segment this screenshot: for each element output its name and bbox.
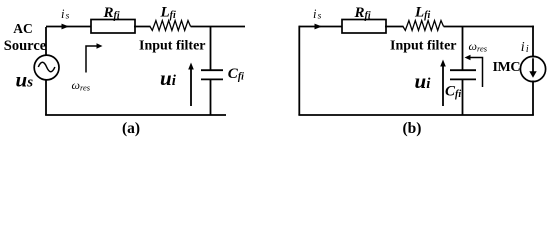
- current source IMC U1 (circle with down arrow): [520, 56, 545, 81]
- label: L_fi (a): [160, 5, 177, 21]
- label: Input filter (a): [139, 39, 206, 54]
- label: omega_res (a): [72, 78, 91, 93]
- label: i_s (a): [61, 7, 70, 22]
- AC source V1 (circle with sine): [34, 55, 59, 80]
- svg-text:Source: Source: [4, 38, 47, 54]
- label: C_fi (b): [445, 84, 461, 101]
- wire: (b) top rail: [299, 26, 534, 28]
- wire: (b) bottom rail: [298, 114, 534, 116]
- wire: (b) left vertical: [298, 26, 300, 115]
- label: R_fi (a): [103, 5, 120, 22]
- wire: (a) top rail: [46, 26, 245, 28]
- capacitor C_fi (a) plates: [201, 70, 223, 79]
- label: L_fi (b): [414, 5, 431, 21]
- resonance arrow omega_res (b): [465, 55, 483, 87]
- resistor R_fi (a): [91, 20, 135, 34]
- label: u_i (a): [160, 66, 177, 90]
- wire: (b) right vertical above IMC: [532, 26, 534, 58]
- voltage arrow u_i (b): [440, 60, 446, 107]
- wire: (b) between resistor and inductor: [385, 26, 404, 28]
- wire: (b) capacitor branch upper: [462, 27, 464, 71]
- label: IMC: [493, 60, 521, 75]
- svg-text:Input filter: Input filter: [139, 39, 206, 54]
- label: i_s (b): [313, 7, 322, 22]
- svg-text:(a): (a): [122, 120, 140, 137]
- wire: (b) capacitor branch lower: [462, 79, 464, 115]
- voltage arrow u_i (a): [188, 63, 194, 107]
- inductor L_fi (b) zigzag: [403, 21, 444, 31]
- svg-text:IMC: IMC: [493, 60, 521, 75]
- label: Input filter (b): [390, 39, 457, 54]
- label: AC Source: [4, 21, 47, 54]
- wire: (b) right vertical below IMC: [532, 81, 534, 116]
- wire: (a) left vertical from source bottom to bottom rail: [45, 79, 47, 115]
- wire: (a) bottom rail: [45, 114, 226, 116]
- inductor L_fi (a) zigzag: [150, 21, 191, 31]
- svg-text:(b): (b): [403, 120, 422, 137]
- label: i_i: [521, 40, 529, 55]
- label: us (source voltage): [16, 68, 34, 92]
- label: R_fi (b): [354, 5, 371, 22]
- resonance arrow omega_res (a): [86, 43, 103, 72]
- svg-text:AC: AC: [13, 21, 33, 36]
- wire: (a) between resistor and inductor: [134, 26, 151, 28]
- wire: (a) capacitor branch upper: [210, 27, 212, 71]
- wire: (a) capacitor branch lower: [210, 79, 212, 115]
- label: omega_res (b): [469, 39, 488, 54]
- current arrow i_s (a): [62, 24, 70, 30]
- svg-text:Input filter: Input filter: [390, 39, 457, 54]
- resistor R_fi (b): [342, 20, 386, 34]
- current arrow i_s (b): [315, 24, 323, 30]
- label: C_fi (a): [228, 66, 244, 83]
- wire: (a) left vertical from source top to top rail: [45, 27, 47, 56]
- label: u_i (b): [415, 69, 432, 93]
- label: (a): [122, 120, 140, 137]
- capacitor C_fi (b) plates: [450, 70, 476, 79]
- label: (b): [403, 120, 422, 137]
